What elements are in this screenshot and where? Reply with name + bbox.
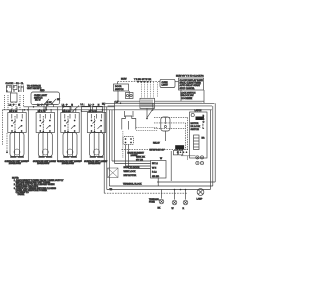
svg-text:R: R: [203, 119, 205, 121]
svg-text:L1 · P: L1 · P: [62, 104, 68, 106]
svg-text:GY OR: GY OR: [136, 160, 143, 162]
svg-text:BK/W: BK/W: [121, 79, 127, 81]
svg-text:R: R: [183, 208, 185, 210]
svg-text:GR GD: GR GD: [152, 176, 159, 178]
svg-text:2300/1300W: 2300/1300W: [37, 163, 50, 165]
svg-text:LAMP: LAMP: [197, 198, 203, 201]
svg-text:W: W: [172, 208, 175, 210]
svg-text:LIGHT: LIGHT: [162, 85, 169, 87]
svg-text:L1 · P: L1 · P: [37, 104, 43, 106]
svg-text:BK/W GY Y R TO CLOCK: BK/W GY Y R TO CLOCK: [176, 76, 201, 78]
svg-text:OVEN: OVEN: [162, 82, 169, 84]
svg-text:L1: L1: [81, 104, 84, 106]
svg-text:L1 · P: L1 · P: [9, 104, 15, 106]
svg-text:R L2: R L2: [152, 172, 157, 174]
svg-text:PANEL: PANEL: [18, 193, 26, 196]
svg-text:2300/1300W: 2300/1300W: [88, 163, 101, 165]
svg-text:FUSE: FUSE: [149, 202, 155, 204]
svg-text:AUTO DELAY START: AUTO DELAY START: [180, 84, 201, 87]
svg-text:I: I: [203, 125, 204, 127]
svg-text:BK W: BK W: [35, 100, 41, 102]
svg-text:BK: BK: [57, 99, 60, 101]
svg-text:BK: BK: [158, 208, 161, 210]
svg-text:W/BK BK: W/BK BK: [136, 157, 145, 159]
svg-text:LATCH: LATCH: [195, 109, 202, 112]
svg-text:R/W MOTOR: R/W MOTOR: [124, 175, 137, 177]
svg-text:2300/1300W: 2300/1300W: [9, 163, 22, 165]
svg-text:UNLOCK SW: UNLOCK SW: [181, 95, 195, 97]
svg-text:BROIL CLEAN TIMER: BROIL CLEAN TIMER: [180, 82, 202, 85]
svg-text:BK L1: BK L1: [152, 163, 159, 165]
svg-text:RELAY: RELAY: [153, 142, 160, 145]
svg-text:TERMINAL BLOCK: TERMINAL BLOCK: [123, 183, 142, 186]
svg-text:W/BK LOCK: W/BK LOCK: [124, 171, 136, 173]
svg-text:O: O: [203, 122, 205, 124]
svg-text:W N: W N: [152, 167, 157, 169]
svg-text:L: L: [203, 128, 205, 130]
svg-text:CLOCK · · P2 · OL: CLOCK · · P2 · OL: [6, 83, 25, 85]
svg-text:P2: P2: [201, 76, 204, 78]
svg-text:DOOR: DOOR: [115, 86, 122, 88]
svg-text:W: W: [160, 158, 163, 160]
svg-text:SWITCH: SWITCH: [115, 89, 124, 91]
svg-text:2300/1300W: 2300/1300W: [62, 163, 75, 165]
svg-text:MOTOR: MOTOR: [191, 123, 199, 125]
svg-text:BK: BK: [102, 104, 105, 106]
svg-text:B: B: [203, 116, 205, 118]
svg-text:CLOCK DISPLAY BAKE: CLOCK DISPLAY BAKE: [180, 79, 204, 82]
svg-text:STOP CANCEL: STOP CANCEL: [180, 87, 196, 90]
svg-text:DR LOCK: DR LOCK: [191, 126, 201, 128]
svg-text:Y R BU GY W OR: Y R BU GY W OR: [134, 79, 152, 81]
svg-text:DOOR SW: DOOR SW: [182, 98, 193, 100]
svg-text:BK/W TO DOOR: BK/W TO DOOR: [124, 167, 140, 169]
svg-text:LOCK SWITCH: LOCK SWITCH: [181, 93, 196, 95]
svg-text:SWITCH: SWITCH: [191, 129, 200, 131]
svg-text:BR: BR: [202, 138, 205, 140]
svg-text:L1 · P: L1 · P: [88, 104, 94, 106]
